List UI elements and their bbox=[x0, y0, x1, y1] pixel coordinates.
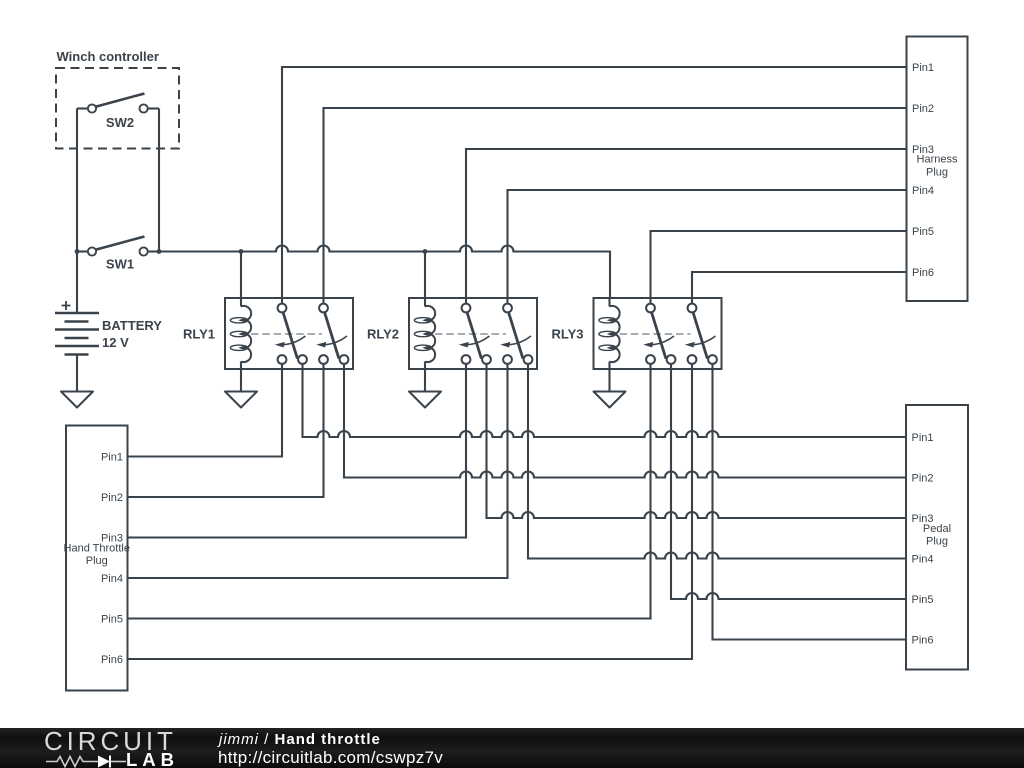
wire pedal Pin5 bbox=[671, 369, 906, 599]
CircuitLab logo CIRCUIT bbox=[44, 726, 177, 757]
svg-text:Pin6: Pin6 bbox=[912, 267, 934, 279]
svg-text:Pin1: Pin1 bbox=[101, 452, 123, 464]
wire harness Pin5 bbox=[651, 231, 907, 298]
winch controller dashed box bbox=[56, 68, 179, 149]
wire pedal Pin1 bbox=[303, 369, 907, 437]
footer url bbox=[218, 748, 443, 768]
battery V1 12V bbox=[55, 301, 99, 355]
svg-text:RLY1: RLY1 bbox=[183, 327, 215, 342]
svg-text:SW1: SW1 bbox=[106, 257, 134, 272]
svg-text:RLY3: RLY3 bbox=[551, 327, 583, 342]
wire hand throttle Pin1 bbox=[128, 369, 283, 457]
svg-text:Pin4: Pin4 bbox=[912, 185, 934, 197]
wire hand throttle Pin2 bbox=[128, 369, 324, 497]
wire SW2 left leg bbox=[76, 109, 78, 252]
node junction at RLY1 coil bbox=[239, 249, 244, 254]
svg-text:Pin1: Pin1 bbox=[912, 432, 934, 444]
node junction right of SW1 bbox=[157, 249, 162, 254]
wire harness Pin3 bbox=[466, 149, 907, 298]
svg-text:Pin2: Pin2 bbox=[912, 473, 934, 485]
svg-text:Plug: Plug bbox=[86, 555, 108, 567]
wire RLY2 coil feed bbox=[424, 252, 426, 299]
svg-text:Pin4: Pin4 bbox=[912, 554, 934, 566]
node junction at RLY2 coil bbox=[423, 249, 428, 254]
switch SW2 bbox=[77, 94, 159, 131]
wire pedal Pin4 bbox=[528, 369, 906, 559]
wire hand throttle Pin5 bbox=[128, 369, 651, 619]
svg-text:12 V: 12 V bbox=[102, 335, 129, 350]
wire harness Pin6 bbox=[692, 272, 907, 298]
node junction left of SW1 bbox=[75, 249, 80, 254]
ground below battery bbox=[61, 392, 93, 408]
svg-text:SW2: SW2 bbox=[106, 115, 134, 130]
wire hand throttle Pin3 bbox=[128, 369, 467, 538]
wire hand throttle Pin4 bbox=[128, 369, 508, 578]
wire RLY2 coil to ground bbox=[424, 369, 426, 392]
wire pedal Pin3 bbox=[487, 369, 907, 518]
ground below RLY2 bbox=[409, 392, 441, 408]
wire harness Pin4 bbox=[508, 190, 907, 298]
CircuitLab logo resistor-diode glyph bbox=[45, 754, 127, 768]
svg-text:Hand Throttle: Hand Throttle bbox=[64, 543, 130, 555]
wire battery to ground bbox=[76, 355, 78, 392]
connector J2 Hand Throttle Plug bbox=[64, 426, 130, 691]
svg-text:Pin2: Pin2 bbox=[912, 103, 934, 115]
wire RLY3 coil to ground bbox=[608, 369, 610, 392]
connector J1 Harness Plug bbox=[907, 37, 968, 302]
svg-text:Pin1: Pin1 bbox=[912, 62, 934, 74]
logo resistor zigzag bbox=[46, 756, 98, 766]
wire RLY3 supply feed is part of main rail bbox=[0, 0, 1, 1]
connector J3 Pedal Plug bbox=[906, 405, 968, 670]
svg-text:Plug: Plug bbox=[926, 167, 948, 179]
wire RLY1 coil to ground bbox=[240, 369, 242, 392]
ground below RLY3 bbox=[594, 392, 626, 408]
svg-text:Pin6: Pin6 bbox=[912, 635, 934, 647]
svg-text:Pin2: Pin2 bbox=[101, 492, 123, 504]
svg-text:Pin5: Pin5 bbox=[912, 594, 934, 606]
wire harness Pin2 bbox=[324, 108, 907, 298]
wire SW2 right leg bbox=[158, 109, 160, 252]
switch SW1 bbox=[77, 237, 159, 272]
svg-text:Pin5: Pin5 bbox=[912, 226, 934, 238]
wire pedal Pin2 bbox=[344, 369, 906, 478]
relay RLY2 bbox=[409, 298, 537, 369]
wire hand throttle Pin6 bbox=[128, 369, 693, 659]
svg-text:Harness: Harness bbox=[917, 154, 958, 166]
svg-text:RLY2: RLY2 bbox=[367, 327, 399, 342]
svg-text:Pedal: Pedal bbox=[923, 523, 951, 535]
svg-text:BATTERY: BATTERY bbox=[102, 318, 162, 333]
relay RLY1 bbox=[225, 298, 353, 369]
svg-text:Pin4: Pin4 bbox=[101, 573, 123, 585]
svg-text:Pin6: Pin6 bbox=[101, 654, 123, 666]
wire SW1 to battery bbox=[76, 252, 78, 314]
logo diode bbox=[98, 755, 110, 767]
wire pedal Pin6 bbox=[713, 369, 907, 640]
footer bar bbox=[0, 728, 1024, 768]
wire harness Pin1 bbox=[282, 67, 907, 298]
wire main supply rail bbox=[159, 246, 610, 299]
relay RLY3 bbox=[594, 298, 722, 369]
svg-text:Plug: Plug bbox=[926, 536, 948, 548]
footer title bbox=[219, 731, 381, 748]
ground below RLY1 bbox=[225, 392, 257, 408]
svg-text:Pin5: Pin5 bbox=[101, 614, 123, 626]
wire RLY1 coil feed bbox=[240, 252, 242, 299]
svg-text:Winch controller: Winch controller bbox=[57, 49, 159, 64]
